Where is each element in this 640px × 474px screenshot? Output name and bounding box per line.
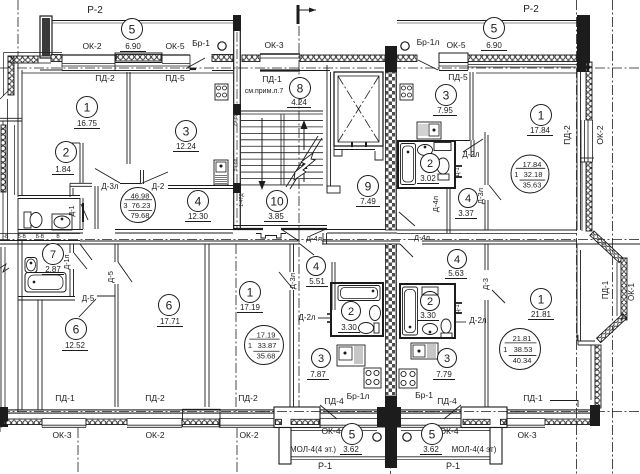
door D-2 swing top-left: [140, 172, 168, 184]
door D-4l opening in corridor wall: [300, 244, 314, 255]
svg-text:29-68: 29-68: [233, 113, 239, 126]
left bay top wall: [0, 117, 22, 119]
svg-text:ОК-2: ОК-2: [595, 125, 605, 144]
bottom band pier box x182-219: [183, 409, 221, 427]
svg-text:16.75: 16.75: [77, 119, 98, 128]
stair stringer center: [280, 114, 282, 185]
wall x290 room1 right: [289, 244, 291, 272]
svg-text:1: 1: [538, 108, 545, 122]
svg-text:ОК-1: ОК-1: [627, 282, 636, 301]
axis line horizontal middle y239: [0, 239, 640, 241]
svg-text:см.прим.л.7: см.прим.л.7: [245, 88, 284, 95]
stair treads: [241, 113, 323, 115]
svg-text:5.63: 5.63: [448, 269, 464, 278]
svg-text:59-68: 59-68: [233, 158, 239, 171]
bathroom right wall: [79, 198, 81, 229]
stair railing diagonal: [286, 136, 318, 187]
central duct wall x385-397: [386, 72, 397, 230]
svg-text:9: 9: [365, 179, 372, 193]
elevator door marks: [351, 142, 353, 147]
room circle 1 top-left: [77, 97, 98, 118]
svg-text:ОК-3: ОК-3: [264, 40, 283, 50]
wall between rooms 6 x115: [114, 244, 116, 262]
door D-3l swing top-left: [95, 169, 120, 184]
svg-text:3.62: 3.62: [423, 445, 439, 454]
svg-text:5: 5: [429, 427, 436, 441]
svg-text:3: 3: [443, 88, 450, 102]
svg-text:ПД-1: ПД-1: [55, 393, 75, 403]
bathroom box lower-middle: [331, 283, 383, 336]
section mark top center: [297, 5, 300, 24]
wall hatch x397-417: [397, 55, 417, 62]
apartment divider pier x385-397: [385, 46, 397, 72]
room circle 1 top-right: [531, 105, 552, 126]
door mark lower-right bath: [455, 302, 462, 304]
axis line vertical x78 bottom: [77, 428, 79, 474]
svg-text:1: 1: [538, 292, 545, 306]
left porch stem: [279, 428, 291, 465]
room circle 1 lower-middle: [240, 282, 261, 303]
left porch box hatch pieces: [276, 419, 282, 424]
toilet top-left bathroom: [24, 212, 31, 228]
svg-text:5: 5: [349, 427, 356, 441]
stair zigzag arrow: [294, 153, 315, 180]
svg-text:ОК-2: ОК-2: [145, 430, 164, 440]
svg-text:МОЛ-4(4 эт.): МОЛ-4(4 эт.): [290, 445, 336, 454]
stove top-right kitchen: [400, 84, 413, 100]
svg-text:2: 2: [63, 145, 70, 159]
inner wall line below top band left: [22, 72, 233, 74]
shelf rect top-right bath: [434, 143, 451, 151]
sink bathroom 7: [25, 258, 37, 273]
right porch box: [461, 407, 507, 428]
svg-text:10: 10: [270, 194, 284, 208]
left bay lower lines: [0, 247, 2, 428]
svg-text:Д-2л: Д-2л: [298, 313, 316, 322]
wall x485 lower-right: [484, 244, 486, 270]
svg-text:17.19: 17.19: [257, 331, 276, 340]
circle 5 bottom right: [422, 424, 443, 445]
stair down arrow: [261, 118, 263, 183]
svg-text:46.98: 46.98: [131, 191, 150, 200]
axis line vertical left x18: [17, 0, 19, 58]
svg-text:35.68: 35.68: [257, 352, 276, 361]
svg-text:12.30: 12.30: [188, 212, 209, 221]
bottom right corner block: [590, 405, 600, 426]
kitchen/room divider x470 top-right: [469, 72, 471, 140]
svg-text:ОК-2: ОК-2: [239, 430, 258, 440]
bathroom top wall y195: [18, 195, 80, 197]
svg-text:3.37: 3.37: [458, 209, 474, 218]
door Br-1l balcony opening swing: [418, 60, 438, 70]
axis overlay through porch boxes: [260, 410, 530, 412]
hall wall x455 top-right: [454, 143, 456, 188]
svg-text:17.71: 17.71: [160, 317, 181, 326]
wall hatch x300-385: [300, 55, 385, 62]
svg-text:ПД-5: ПД-5: [448, 72, 468, 82]
svg-text:3: 3: [123, 201, 127, 210]
door threshold D-3l to D-2: [120, 183, 140, 185]
svg-text:2: 2: [427, 296, 433, 308]
svg-text:ПД-1: ПД-1: [523, 393, 543, 403]
door swing corridor top-right: [399, 212, 415, 226]
svg-text:8: 8: [297, 81, 304, 95]
svg-text:1: 1: [514, 170, 518, 179]
door swing D-3l top-right: [489, 185, 501, 200]
elevator lower wall: [334, 145, 383, 147]
symbol circle Br-1: [218, 42, 226, 50]
room circle 2 lower-right bath: [421, 292, 440, 311]
svg-text:Д-3л: Д-3л: [101, 182, 119, 191]
axis line vertical x576: [576, 0, 578, 474]
kitchen bottom wall y140 top-right: [397, 140, 470, 142]
corridor wall upper right part: [327, 229, 397, 231]
svg-text:79.68: 79.68: [131, 211, 150, 220]
hall L-step wall: [70, 182, 92, 184]
svg-text:ПД-1: ПД-1: [262, 74, 282, 84]
room circle 4 lower-right hall: [448, 250, 467, 269]
bathtub lower-middle horizontal: [338, 286, 380, 301]
svg-text:4: 4: [313, 261, 319, 273]
shelf lower-right bath: [422, 287, 438, 295]
circle 10 stair hall: [267, 191, 288, 212]
svg-text:Бр-1л: Бр-1л: [417, 37, 440, 47]
svg-text:3.30: 3.30: [341, 323, 357, 332]
svg-text:12.52: 12.52: [65, 341, 86, 350]
svg-text:4: 4: [465, 193, 471, 205]
svg-text:ОК-3: ОК-3: [517, 430, 536, 440]
right porch stem: [490, 428, 502, 465]
svg-text:7.49: 7.49: [360, 197, 376, 206]
lower apartments top wall y240-244: [0, 240, 80, 242]
bottom band hatch x4-42: [4, 419, 42, 425]
bathtub top-right: [401, 144, 416, 185]
svg-text:4.24: 4.24: [291, 98, 307, 107]
room1 left wall jog top-right: [470, 140, 472, 157]
svg-text:5.51: 5.51: [309, 277, 325, 286]
svg-text:3: 3: [444, 353, 450, 365]
svg-text:2.87: 2.87: [45, 265, 61, 274]
svg-text:3.02: 3.02: [420, 174, 436, 183]
svg-text:ОК-5: ОК-5: [446, 40, 465, 50]
kitchen sink unit top-right: [417, 122, 441, 139]
balcony bottom lines: [291, 456, 385, 458]
door swing stair hall: [281, 229, 299, 241]
svg-text:38.53: 38.53: [514, 345, 533, 354]
left outer wall lower: [17, 198, 19, 412]
svg-text:Бр-1: Бр-1: [415, 390, 433, 400]
wall top-left corner outer contour: [3, 53, 5, 97]
door swing lower-right hall: [492, 290, 505, 303]
axis line vertical x390 bottom: [390, 352, 392, 474]
svg-text:МОЛ-4(4 эт): МОЛ-4(4 эт): [452, 445, 497, 454]
door mark right of bath: [455, 165, 462, 167]
sink oval top-right bath: [418, 145, 433, 156]
room circle 3 kitchen: [176, 121, 197, 142]
stair up arrow right flight: [303, 128, 305, 150]
svg-text:3: 3: [183, 124, 190, 138]
room circle 6 mid: [159, 295, 180, 316]
left porch box: [274, 407, 320, 428]
bottom window OK-3 right x507-545: [507, 418, 545, 420]
room circle 3 top-right kitchen: [436, 85, 457, 106]
sink lower-middle bath: [370, 306, 381, 321]
top-right room right wall: [576, 72, 578, 230]
toilet lower-middle bath: [359, 323, 374, 334]
svg-text:1: 1: [503, 345, 507, 354]
svg-text:ПД-2: ПД-2: [238, 393, 258, 403]
room circle 7 bath: [43, 244, 64, 265]
elevator left pier step: [334, 146, 342, 156]
door swing into vestibule: [310, 230, 325, 237]
window OK-2 top-left: [62, 54, 115, 56]
hall/room divider x485 top-right: [484, 132, 486, 185]
room circle 3 lower-right kitchen: [438, 349, 457, 368]
symbol circle bottom left: [373, 433, 381, 441]
door D-2l label and swing: [463, 139, 483, 152]
axis line vertical x612: [612, 0, 614, 474]
svg-text:3: 3: [318, 353, 324, 365]
stair vestibule floor edge: [241, 110, 323, 112]
room circle 4: [188, 191, 209, 212]
right bay far vertical hatch: [621, 258, 627, 320]
svg-text:Д-1: Д-1: [69, 205, 76, 216]
wall below bathroom top-right x447: [446, 188, 448, 233]
svg-text:17.19: 17.19: [240, 303, 261, 312]
room circle 3 lower-middle kitchen: [312, 349, 331, 368]
svg-text:17.84: 17.84: [523, 160, 542, 169]
svg-text:Д-2: Д-2: [152, 182, 165, 191]
bathtub lower-right vertical: [403, 287, 418, 335]
svg-text:ПД-2: ПД-2: [562, 125, 572, 145]
bottom wall double line: [8, 409, 274, 411]
circle 8 vestibule: [290, 78, 311, 99]
svg-text:1.84: 1.84: [55, 165, 71, 174]
room circle 2 top-right bath: [421, 154, 440, 173]
circle 5 left with 6.90: [122, 19, 143, 40]
svg-text:33.87: 33.87: [258, 341, 277, 350]
svg-text:32.18: 32.18: [524, 170, 543, 179]
svg-text:-В: -В: [4, 234, 10, 240]
left bay outer lines: [2, 121, 4, 240]
svg-text:Д-1л: Д-1л: [64, 254, 71, 269]
right bay lower diagonal hatch: [597, 314, 627, 343]
elevator shaft: [334, 72, 383, 146]
room circle 1 lower-right: [531, 289, 552, 310]
svg-text:Д-4л: Д-4л: [306, 234, 322, 243]
right bay upper diagonal hatch: [590, 231, 623, 263]
wall stub x332: [331, 262, 333, 310]
svg-text:5: 5: [491, 21, 498, 35]
stove top-left kitchen: [215, 84, 228, 100]
svg-text:Р-2: Р-2: [523, 4, 539, 15]
room circle 6 left: [66, 319, 87, 340]
balcony P-2 left roof line: [52, 20, 233, 22]
duct lines below bath 7: [37, 300, 39, 410]
stove lower-right: [399, 369, 417, 388]
svg-text:Д-5: Д-5: [106, 271, 115, 283]
toilet top-right bath: [437, 158, 449, 174]
circle 5 bottom left: [342, 424, 363, 445]
svg-text:Д-4л: Д-4л: [414, 233, 430, 242]
bottom window x320-377 with balcony door: [320, 418, 377, 420]
door D-5 swing into room 6: [79, 299, 96, 317]
svg-text:21.81: 21.81: [513, 334, 532, 343]
svg-text:Д-1: Д-1: [455, 304, 461, 314]
svg-text:ПД-4: ПД-4: [437, 396, 457, 406]
svg-text:35.63: 35.63: [523, 181, 542, 190]
door Br-1 balcony opening swing: [186, 58, 205, 69]
left outer wall upper: [17, 63, 19, 197]
kitchen sink unit top-left: [214, 160, 228, 185]
stair west wall top pier: [233, 15, 235, 72]
svg-text:ПД-4: ПД-4: [324, 396, 344, 406]
window OK-5 top-left: [162, 54, 190, 56]
svg-text:5: 5: [129, 22, 136, 36]
wall x205 between apartments: [204, 244, 206, 407]
svg-text:12.24: 12.24: [176, 142, 197, 151]
right bay jog lines: [578, 340, 595, 342]
balcony pier top-left: [40, 16, 52, 58]
svg-text:Д-2л: Д-2л: [469, 316, 487, 325]
symbol circle bottom right: [403, 433, 411, 441]
bottom-left corner block: [0, 407, 8, 427]
door stub between D-3l and D-2: [140, 170, 142, 184]
svg-text:Д-2л: Д-2л: [462, 150, 480, 159]
room circle 2 lower-middle bath: [342, 302, 361, 321]
stair east wall foot step: [327, 186, 340, 193]
balcony inner lines: [291, 430, 377, 432]
room circle 4 top-right hall: [459, 189, 478, 208]
kitchen sink lower-middle: [337, 345, 365, 366]
window PD-1 stair vestibule: [242, 55, 260, 62]
bottom band hatch x545-590: [545, 419, 590, 425]
svg-text:ОК-5: ОК-5: [165, 41, 184, 51]
bathroom door D-1: [82, 203, 84, 222]
window OK-5 top-right: [439, 53, 468, 63]
bottom window OK-3 left x42-86: [42, 418, 86, 420]
svg-text:Б-В: Б-В: [36, 234, 45, 240]
svg-text:Д-3л: Д-3л: [288, 273, 297, 289]
svg-text:6.90: 6.90: [125, 42, 141, 51]
corridor wall upper y229 stair part: [233, 225, 327, 227]
svg-text:ОК-4: ОК-4: [321, 426, 340, 436]
svg-text:4: 4: [454, 254, 460, 266]
bottom window OK-2 x127-182: [127, 418, 182, 420]
wall pier x115-162 (6.90 pier): [115, 53, 162, 63]
room circle 4 lower-middle hall: [307, 257, 326, 276]
stove lower-middle: [364, 368, 381, 388]
right outer pier x577-590: [577, 15, 590, 72]
bathtub 7: [25, 273, 66, 293]
svg-text:7.95: 7.95: [437, 106, 453, 115]
svg-text:ОК-2: ОК-2: [82, 41, 101, 51]
axis line vertical x236 lower half: [235, 244, 237, 412]
svg-text:6: 6: [166, 298, 173, 312]
sink top-left bathroom: [52, 214, 72, 230]
svg-text:ОК-3: ОК-3: [52, 430, 71, 440]
right bay lower vertical hatch: [595, 345, 601, 408]
svg-text:Д-3: Д-3: [481, 278, 490, 290]
svg-text:7.87: 7.87: [310, 370, 326, 379]
right porch box hatch pieces: [463, 419, 490, 424]
balcony P-2 right roof line: [397, 20, 578, 22]
right bay window OK-2 frame: [580, 120, 582, 162]
svg-text:Д-1: Д-1: [455, 167, 461, 177]
bathroom 7 walls: [18, 296, 75, 298]
axis line vertical x299 top: [298, 26, 300, 412]
svg-text:Р-1: Р-1: [318, 461, 332, 471]
stair east wall: [326, 65, 328, 193]
kitchen sink lower-right: [411, 343, 438, 359]
inner wall line below top band right: [476, 72, 577, 74]
svg-text:1: 1: [84, 100, 91, 114]
room circle 9 corridor: [358, 176, 379, 197]
svg-text:2: 2: [427, 158, 433, 170]
svg-text:1: 1: [248, 341, 252, 350]
circle 5 right with 6.90: [484, 18, 505, 39]
wall hatch x468-577 long: [468, 55, 577, 62]
elevator right pier step: [375, 146, 383, 160]
bottom band hatch x86-127: [86, 419, 127, 425]
wall pier x212-233: [212, 55, 233, 62]
balcony door swing right: [444, 405, 461, 419]
svg-text:ПД-5: ПД-5: [165, 73, 185, 83]
axis line vertical x237 bottom: [236, 428, 238, 474]
hall wall x80: [79, 143, 81, 183]
svg-text:40.34: 40.34: [513, 356, 532, 365]
svg-text:7.79: 7.79: [436, 370, 452, 379]
svg-text:6: 6: [73, 322, 80, 336]
svg-text:1: 1: [247, 285, 254, 299]
stair west wall lower: [233, 72, 235, 229]
bottom window OK-2 x219-274: [219, 418, 274, 420]
svg-text:3.30: 3.30: [420, 311, 436, 320]
toilet lower-right bath: [441, 319, 451, 333]
vestibule right wall piece: [322, 233, 324, 244]
svg-text:ПД-2: ПД-2: [95, 73, 115, 83]
svg-text:4: 4: [195, 194, 202, 208]
apartment totals circle lower-middle: [245, 326, 284, 365]
center cross wall bottom: [377, 407, 401, 428]
wall pier x51-62: [51, 55, 62, 62]
break mark zigzag left wall: [0, 264, 9, 272]
lower-right room right wall: [576, 244, 578, 341]
vestibule doorway notch profile: [256, 234, 286, 239]
kitchen bottom wall y185: [168, 185, 233, 187]
svg-text:Д-3л: Д-3л: [476, 188, 485, 204]
svg-text:ПД-1: ПД-1: [601, 280, 610, 299]
svg-text:Бр-1: Бр-1: [192, 38, 210, 48]
svg-text:2: 2: [348, 306, 354, 318]
door swing into room 1 lower-middle: [279, 272, 293, 289]
svg-text:Бр-1л: Бр-1л: [347, 391, 370, 401]
bathroom box top-right: [398, 141, 455, 188]
wall top-left corner hatch L: [8, 56, 38, 63]
axis line horizontal bottom y411: [0, 410, 640, 412]
svg-text:1-47Д: 1-47Д: [239, 193, 245, 207]
window piece x38-51: [38, 55, 51, 57]
svg-text:3.85: 3.85: [268, 212, 284, 221]
right bay upper wall hatch segment: [586, 62, 592, 120]
svg-text:ПД-2: ПД-2: [145, 393, 165, 403]
svg-text:7: 7: [50, 249, 56, 261]
sink lower-right bath: [423, 324, 438, 335]
svg-text:Р-1: Р-1: [446, 461, 460, 471]
apartment totals circle left: [121, 188, 156, 223]
symbol circle Br-1l: [401, 42, 409, 50]
svg-text:17.84: 17.84: [530, 126, 551, 135]
